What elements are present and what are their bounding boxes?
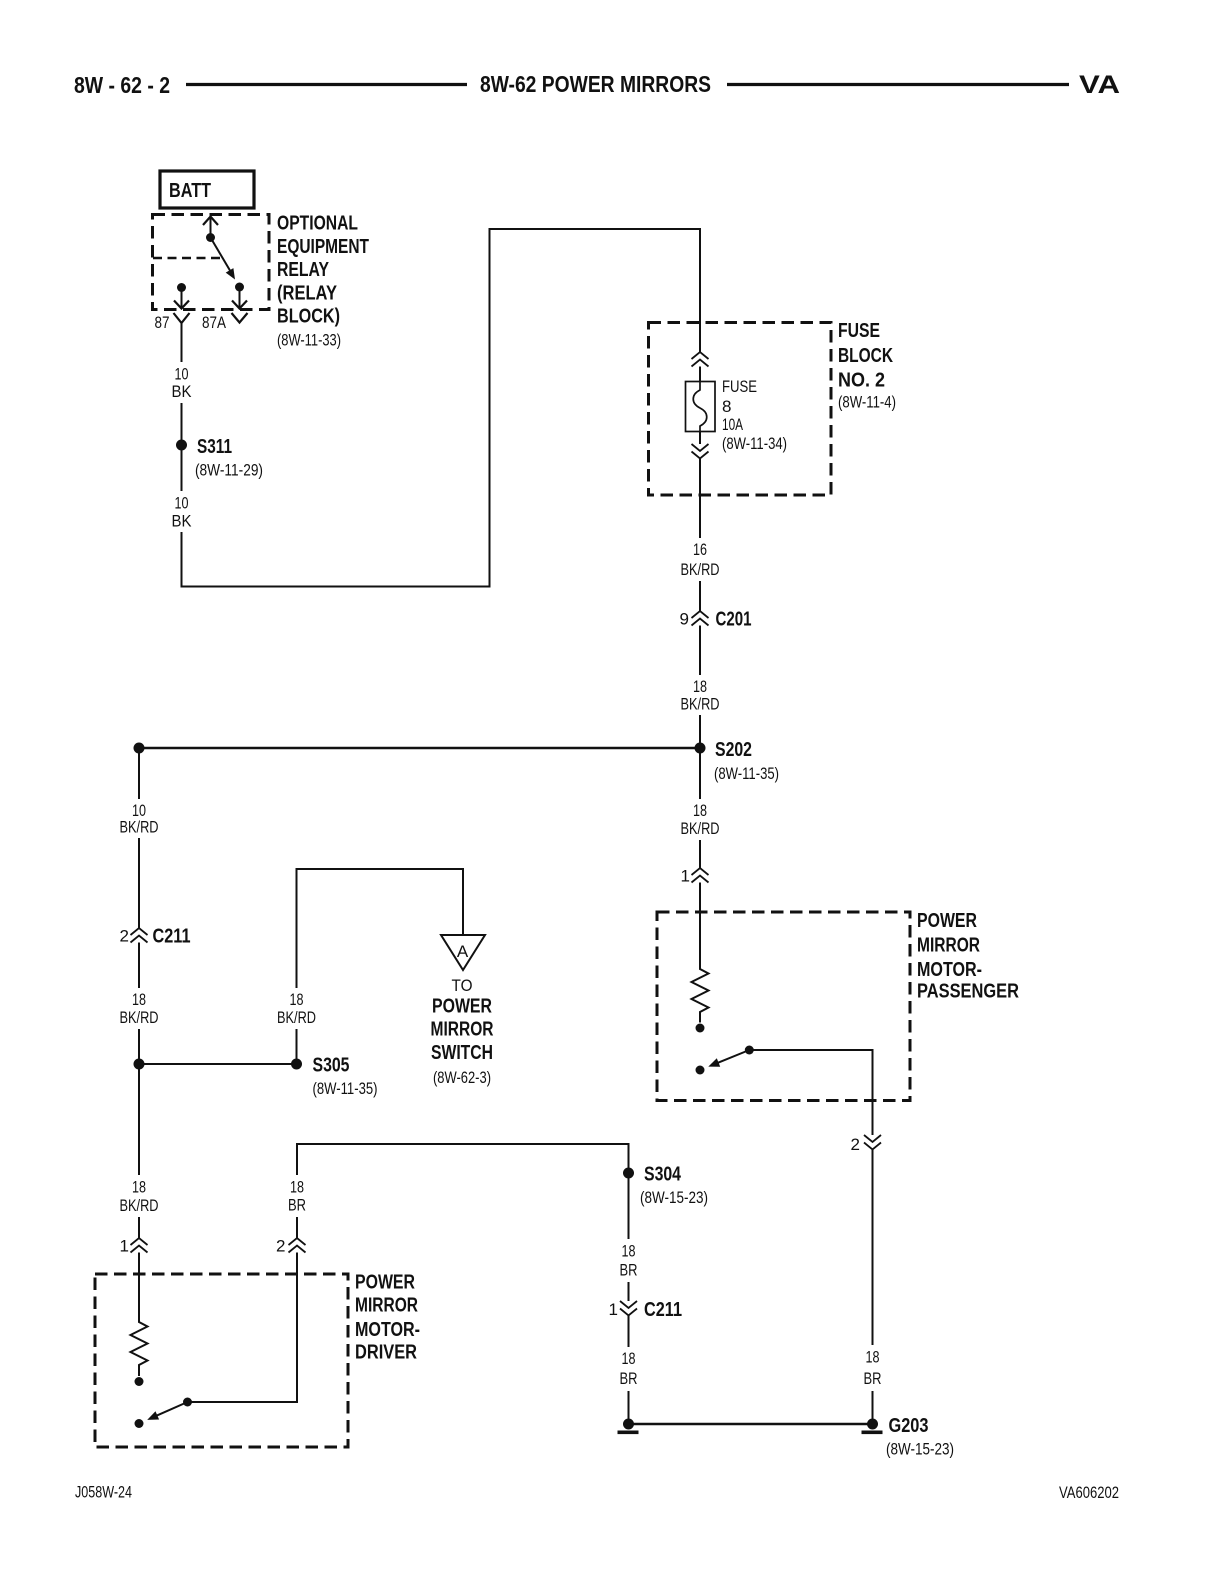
driver motor switch wiper arrow [135, 1398, 193, 1429]
relay pin 87 terminal arrow [174, 283, 189, 309]
svg-text:BK/RD: BK/RD [277, 1008, 316, 1027]
off-page triangle A to power mirror switch [431, 935, 494, 1087]
svg-text:(8W-15-23): (8W-15-23) [886, 1440, 954, 1459]
power mirror motor passenger dashed box [657, 912, 910, 1101]
wire 10 BK/RD S202 to C211 left [138, 748, 140, 928]
svg-text:(8W-11-4): (8W-11-4) [838, 393, 896, 412]
svg-text:MIRROR: MIRROR [917, 935, 980, 957]
svg-text:1: 1 [681, 867, 690, 886]
svg-text:BR: BR [620, 1369, 638, 1388]
svg-text:A: A [457, 942, 469, 961]
wire label 18 BR below S304 [610, 1239, 648, 1282]
svg-text:BR: BR [288, 1196, 306, 1215]
wire label 10 BK upper [163, 362, 200, 403]
svg-text:18: 18 [622, 1242, 636, 1261]
svg-text:BK: BK [172, 382, 193, 401]
svg-text:MOTOR-: MOTOR- [355, 1319, 420, 1341]
svg-text:1: 1 [120, 1237, 129, 1256]
svg-text:S305: S305 [313, 1055, 350, 1077]
svg-text:C201: C201 [716, 609, 752, 631]
wire label 10 BK lower [163, 491, 200, 532]
svg-text:(8W-62-3): (8W-62-3) [433, 1068, 491, 1087]
passenger motor pin 1 chevrons [681, 867, 709, 886]
power mirror motor driver dashed box [95, 1274, 348, 1447]
wire label 18 BR passenger ground leg [854, 1345, 892, 1391]
passenger motor resistor winding [692, 964, 709, 1033]
svg-text:18: 18 [693, 801, 707, 820]
svg-text:MOTOR-: MOTOR- [917, 959, 982, 981]
fuse block name label [838, 320, 896, 412]
svg-text:POWER: POWER [355, 1272, 415, 1294]
wire S305 bus horizontal [139, 1063, 297, 1065]
svg-text:2: 2 [120, 927, 129, 946]
svg-text:J058W-24: J058W-24 [75, 1483, 132, 1502]
svg-text:2: 2 [851, 1135, 860, 1154]
svg-text:8W-62 POWER MIRRORS: 8W-62 POWER MIRRORS [480, 71, 711, 97]
svg-text:18: 18 [132, 990, 146, 1009]
svg-text:VA: VA [1079, 71, 1120, 99]
svg-text:FUSE: FUSE [722, 377, 757, 396]
svg-text:9: 9 [680, 610, 689, 629]
svg-text:8: 8 [722, 397, 731, 416]
wire driver motor pin 1 into box [138, 1253, 140, 1318]
svg-text:BATT: BATT [169, 180, 211, 202]
svg-text:(8W-11-29): (8W-11-29) [195, 461, 263, 480]
svg-text:BK/RD: BK/RD [120, 1008, 159, 1027]
connector C201 [680, 609, 752, 631]
svg-text:PASSENGER: PASSENGER [917, 981, 1019, 1003]
wire label 18 BK/RD below S202 right [675, 799, 725, 840]
svg-text:8W - 62 - 2: 8W - 62 - 2 [74, 72, 170, 98]
wire fuse output stub [699, 432, 701, 445]
driver motor name label [355, 1272, 420, 1364]
header rule left [186, 83, 467, 86]
wire 10 BK from relay pin 87 via S311 to fuse block feed [182, 229, 701, 587]
relay common terminal arrow to BATT [203, 217, 218, 243]
svg-text:G203: G203 [889, 1415, 929, 1437]
svg-text:2: 2 [276, 1237, 285, 1256]
svg-text:10: 10 [175, 494, 189, 513]
connector C211 pin 2 left [120, 926, 191, 948]
svg-text:87A: 87A [202, 313, 227, 332]
svg-text:S304: S304 [644, 1164, 682, 1186]
svg-text:EQUIPMENT: EQUIPMENT [277, 236, 369, 258]
connector symbol pin 87A [232, 313, 248, 323]
BATT feed box [160, 171, 254, 208]
wire passenger motor pin 1 into box [699, 883, 701, 965]
wire label 18 BK/RD above S305 left [114, 988, 164, 1029]
svg-text:BK/RD: BK/RD [681, 695, 720, 714]
svg-text:MIRROR: MIRROR [355, 1295, 418, 1317]
svg-text:VA606202: VA606202 [1059, 1483, 1119, 1502]
passenger motor pin 2 chevrons [851, 1135, 881, 1154]
wire 18 BR junction to S304 and C211 right [297, 1144, 629, 1301]
svg-text:18: 18 [290, 990, 304, 1009]
wire 18 BK/RD S305 branch to power mirror switch [297, 869, 464, 1064]
ground symbol left [618, 1419, 639, 1435]
wire 18 BK/RD S305 to driver motor pin 1 [138, 1064, 140, 1238]
wire 18 BK/RD C201 to S202 [699, 626, 701, 749]
svg-text:BR: BR [620, 1261, 638, 1280]
wire 18 BR passenger pin 2 to ground [872, 1150, 874, 1425]
wire 18 BK/RD S202 to passenger motor pin 1 [699, 748, 701, 868]
relay name label [277, 213, 369, 350]
svg-text:FUSE: FUSE [838, 320, 880, 342]
wire label 18 BR driver pin 2 [278, 1175, 316, 1217]
svg-text:BLOCK): BLOCK) [277, 306, 340, 328]
fuse lower terminal chevrons [692, 444, 709, 459]
svg-text:MIRROR: MIRROR [431, 1019, 494, 1041]
optional equipment relay dashed box [153, 215, 270, 310]
wire 18 BK/RD C211 to S305 [138, 943, 140, 1065]
wire label 16 BK/RD [675, 538, 725, 581]
wire fuse input stub [699, 367, 701, 382]
relay pin 87A terminal arrow [232, 283, 247, 309]
svg-text:BR: BR [864, 1369, 882, 1388]
driver motor resistor winding [131, 1317, 148, 1386]
svg-text:POWER: POWER [432, 996, 492, 1018]
svg-text:BK/RD: BK/RD [120, 818, 159, 837]
relay internal divider dashed [153, 257, 221, 260]
svg-text:SWITCH: SWITCH [431, 1042, 493, 1064]
header rule right [727, 83, 1069, 86]
svg-text:RELAY: RELAY [277, 259, 330, 281]
wire 18 BR driver motor pin 2 to junction [188, 1253, 298, 1403]
driver motor pin 1 chevrons [120, 1237, 148, 1256]
svg-text:C211: C211 [644, 1299, 682, 1321]
passenger motor name label [917, 910, 1019, 1003]
wire label 18 BR below C211 right [610, 1347, 648, 1391]
svg-text:NO. 2: NO. 2 [838, 370, 885, 392]
svg-text:1: 1 [609, 1300, 618, 1319]
svg-text:S202: S202 [715, 739, 752, 761]
wire 16 BK/RD fuse to C201 [699, 459, 701, 612]
splice S202 [134, 739, 780, 783]
svg-text:TO: TO [452, 976, 473, 995]
svg-text:POWER: POWER [917, 910, 977, 932]
svg-text:10A: 10A [722, 415, 743, 434]
svg-text:(8W-11-34): (8W-11-34) [722, 434, 787, 453]
svg-text:C211: C211 [153, 926, 191, 948]
svg-text:18: 18 [866, 1348, 880, 1367]
svg-text:(8W-11-35): (8W-11-35) [714, 764, 779, 783]
relay movable contact arm arrow [211, 238, 236, 280]
svg-text:(8W-15-23): (8W-15-23) [640, 1188, 708, 1207]
svg-text:S311: S311 [197, 436, 232, 458]
fuse 8 10A element [686, 377, 788, 453]
svg-text:(8W-11-35): (8W-11-35) [313, 1079, 378, 1098]
svg-text:BK/RD: BK/RD [681, 819, 720, 838]
splice S304 [623, 1164, 708, 1208]
wire S202 bus horizontal [139, 747, 700, 750]
ground G203 [862, 1415, 955, 1459]
svg-text:87: 87 [155, 313, 170, 332]
svg-text:BK/RD: BK/RD [681, 560, 720, 579]
svg-text:(RELAY: (RELAY [277, 282, 338, 304]
wire label 18 BK/RD above S202 [675, 675, 725, 715]
FUSE BLOCK NO. 2 dashed box [649, 323, 832, 496]
driver motor pin 2 chevrons [276, 1237, 305, 1256]
svg-text:16: 16 [693, 540, 707, 559]
svg-text:OPTIONAL: OPTIONAL [277, 213, 358, 235]
splice S311 [176, 436, 263, 480]
connector C211 pin 1 right [609, 1299, 682, 1321]
wire 18 BR C211 to ground G203 [628, 1316, 630, 1425]
svg-text:18: 18 [132, 1178, 146, 1197]
svg-text:18: 18 [290, 1178, 304, 1197]
wire label 10 BK/RD below S202 left [114, 799, 164, 838]
fuse upper terminal chevrons [692, 352, 709, 367]
svg-text:18: 18 [622, 1349, 636, 1368]
passenger motor switch wiper arrow [696, 1046, 754, 1075]
svg-text:(8W-11-33): (8W-11-33) [277, 331, 341, 350]
wire ground bus horizontal [629, 1423, 873, 1426]
wire passenger motor pin 2 [749, 1050, 872, 1135]
wire label 18 BK/RD driver pin 1 [114, 1175, 164, 1217]
svg-text:10: 10 [175, 365, 189, 384]
wire label 18 BK/RD above S305 right [272, 988, 322, 1029]
svg-text:BK: BK [172, 512, 193, 531]
connector symbol pin 87 [174, 313, 190, 323]
svg-text:BK/RD: BK/RD [120, 1196, 159, 1215]
svg-text:DRIVER: DRIVER [355, 1342, 417, 1364]
svg-text:BLOCK: BLOCK [838, 345, 893, 367]
svg-text:18: 18 [693, 677, 707, 696]
splice S305 [134, 1055, 378, 1099]
